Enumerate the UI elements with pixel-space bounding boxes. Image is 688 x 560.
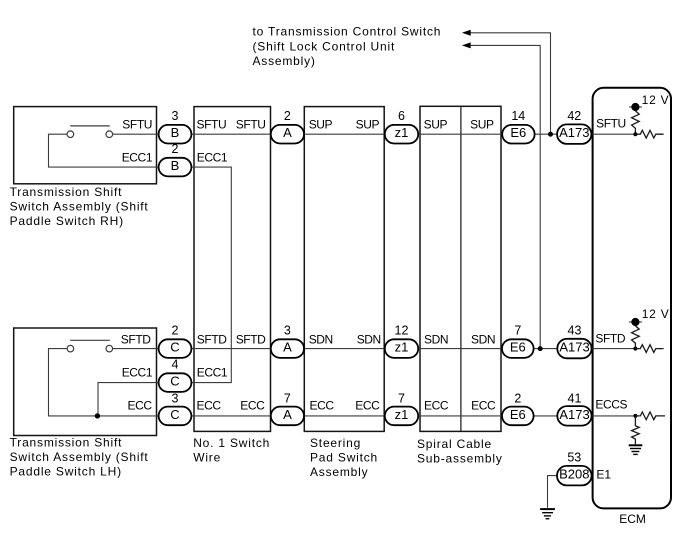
box: Steering Pad Switch Assembly xyxy=(304,107,384,432)
svg-text:A173: A173 xyxy=(559,407,589,422)
svg-text:Pad Switch: Pad Switch xyxy=(310,451,378,465)
node: SFTU branch junction xyxy=(548,132,553,137)
svg-text:12 V: 12 V xyxy=(642,93,670,107)
svg-text:2: 2 xyxy=(172,142,179,156)
wire SFTU: connector A173-42 into ECM xyxy=(591,133,635,135)
wire ECC1 RH: switch common to connector B2 xyxy=(49,134,159,167)
divider: spiral cable internal partition xyxy=(460,106,462,431)
wire ECC1: connector B2 into No.1 switch wire down to LH ECC1 row xyxy=(191,167,231,383)
node: SFTD internal junction xyxy=(633,347,637,351)
svg-text:Paddle Switch LH): Paddle Switch LH) xyxy=(10,465,122,479)
connector z1 pin 6 (SUP) xyxy=(385,125,418,144)
svg-text:ECC1: ECC1 xyxy=(122,151,153,165)
connector B208 pin 53 (E1) xyxy=(557,466,592,486)
wire SFTU: connector B3 through No.1 switch wire to connector A2 xyxy=(191,133,270,135)
svg-text:43: 43 xyxy=(568,324,582,338)
ground (ECCS internal) xyxy=(629,445,643,454)
svg-text:Transmission Shift: Transmission Shift xyxy=(10,436,123,450)
box: ECM xyxy=(593,88,671,509)
svg-text:SDN: SDN xyxy=(471,332,495,346)
svg-text:12 V: 12 V xyxy=(642,307,670,321)
svg-text:E6: E6 xyxy=(510,407,526,422)
svg-text:B: B xyxy=(171,125,180,140)
svg-text:SFTU: SFTU xyxy=(197,118,227,132)
svg-text:Paddle Switch RH): Paddle Switch RH) xyxy=(10,214,124,228)
svg-text:C: C xyxy=(170,340,179,355)
box: Spiral Cable Sub-assembly xyxy=(420,106,501,431)
connector C pin 2 (SFTD) xyxy=(159,339,192,358)
label: Transmission Shift Switch Assembly (Shift Paddle Switch RH) xyxy=(10,185,149,228)
power supply 12 V (SFTD pull-up) xyxy=(629,318,642,326)
svg-text:Switch Assembly (Shift: Switch Assembly (Shift xyxy=(10,450,149,464)
svg-text:41: 41 xyxy=(568,391,582,405)
wire ECC: switch LH common down to ECC row to connector C3 xyxy=(49,349,159,416)
connector A173 pin 43 (SFTD) xyxy=(557,339,591,359)
svg-text:SFTD: SFTD xyxy=(197,332,227,346)
box: Transmission Shift Switch Assembly (Shift Paddle Switch RH) xyxy=(14,107,157,184)
svg-text:14: 14 xyxy=(511,109,525,123)
node: SFTU internal junction xyxy=(633,132,637,136)
svg-text:Switch Assembly (Shift: Switch Assembly (Shift xyxy=(10,200,149,214)
wire ECC: connector z1-7 through spiral cable to connector E6-2 xyxy=(418,415,502,417)
svg-text:to Transmission Control Switch: to Transmission Control Switch xyxy=(253,25,442,39)
svg-text:E1: E1 xyxy=(596,467,611,481)
label: Spiral Cable Sub-assembly xyxy=(417,437,503,466)
svg-text:Spiral Cable: Spiral Cable xyxy=(417,437,492,451)
svg-text:ECC: ECC xyxy=(310,398,335,412)
label: Transmission Shift Switch Assembly (Shift Paddle Switch LH) xyxy=(10,436,149,479)
connector z1 pin 7 (ECC) xyxy=(385,407,418,426)
wire SFTU: switch RH to connector B3 xyxy=(113,133,159,135)
node: SFTD branch junction xyxy=(538,346,543,351)
svg-text:A173: A173 xyxy=(559,340,589,355)
connector E6 pin 14 (SUP) xyxy=(502,125,534,144)
svg-text:Steering: Steering xyxy=(310,436,361,450)
connector A173 pin 42 (SFTU) xyxy=(557,124,591,143)
svg-text:Sub-assembly: Sub-assembly xyxy=(417,452,503,466)
wire SFTD: switch LH to connector C2 xyxy=(113,348,159,350)
svg-text:C: C xyxy=(170,374,179,389)
wire SFTD: connector E6-7 to connector A173-43 xyxy=(534,348,558,350)
svg-text:7: 7 xyxy=(398,391,405,405)
svg-text:E6: E6 xyxy=(510,125,526,140)
wire SFTD: connector C2 through No.1 switch wire to connector A3 xyxy=(191,348,270,350)
svg-text:ECC: ECC xyxy=(197,398,222,412)
svg-text:SDN: SDN xyxy=(309,332,333,346)
svg-text:A: A xyxy=(283,407,292,422)
svg-text:A: A xyxy=(283,125,292,140)
svg-text:z1: z1 xyxy=(395,407,409,422)
svg-text:SFTU: SFTU xyxy=(596,117,626,131)
label: Steering Pad Switch Assembly xyxy=(310,436,378,479)
svg-text:SFTD: SFTD xyxy=(121,332,151,346)
wire ECC: connector E6-2 to connector A173-41 xyxy=(534,415,558,417)
wire: SFTD branch up to transmission control switch (arrow 2) xyxy=(470,45,540,348)
svg-text:ECC: ECC xyxy=(128,398,153,412)
node: ECCS internal junction xyxy=(633,414,637,418)
box: No. 1 Switch Wire xyxy=(194,107,271,432)
svg-text:SDN: SDN xyxy=(424,332,448,346)
connector z1 pin 12 (SDN) xyxy=(385,339,418,358)
svg-text:53: 53 xyxy=(567,451,581,465)
wire: SFTU branch up to transmission control switch (arrow 1) xyxy=(470,33,550,134)
svg-text:ECCS: ECCS xyxy=(595,398,627,412)
wire SUP: connector z1-6 through spiral cable to connector E6-14 xyxy=(418,133,502,135)
svg-text:C: C xyxy=(170,407,179,422)
connector E6 pin 7 (SDN) xyxy=(502,339,534,358)
svg-text:3: 3 xyxy=(172,391,179,405)
svg-text:4: 4 xyxy=(172,358,179,372)
wire SFTD: connector A173-43 into ECM xyxy=(592,348,635,350)
svg-text:ECM: ECM xyxy=(619,512,646,526)
svg-text:No. 1 Switch: No. 1 Switch xyxy=(193,436,270,450)
connector C pin 3 (ECC) xyxy=(159,407,192,426)
connector A pin 3 (SFTD) xyxy=(271,339,304,358)
resistor R5 (ECCS series) xyxy=(635,412,665,420)
svg-text:SUP: SUP xyxy=(309,117,333,131)
svg-text:SUP: SUP xyxy=(424,117,448,131)
wire ECCS: connector A173-41 into ECM xyxy=(592,415,635,417)
svg-text:A: A xyxy=(283,340,292,355)
wire SDN: connector z1-12 through spiral cable to connector E6-7 xyxy=(418,348,502,350)
svg-text:SUP: SUP xyxy=(356,117,380,131)
wire E1: connector B208-53 to ground xyxy=(548,476,558,508)
switch SW-LH (shift paddle LH) xyxy=(67,340,113,352)
svg-text:3: 3 xyxy=(284,324,291,338)
svg-text:z1: z1 xyxy=(395,340,409,355)
wire ECC1 LH: connector C4 left then down to ECC node xyxy=(98,383,159,416)
svg-text:42: 42 xyxy=(567,109,581,123)
svg-text:12: 12 xyxy=(395,324,409,338)
label: to Transmission Control Switch (Shift Lock Control Unit Assembly) xyxy=(253,25,442,68)
svg-text:ECC1: ECC1 xyxy=(197,151,228,165)
arrowhead: to transmission control switch line 2 xyxy=(462,42,471,48)
connector B pin 3 (SFTU) xyxy=(159,125,192,144)
svg-text:(Shift Lock Control Unit: (Shift Lock Control Unit xyxy=(253,39,396,53)
svg-text:SFTU: SFTU xyxy=(122,118,152,132)
svg-text:Assembly: Assembly xyxy=(310,465,368,479)
svg-text:E6: E6 xyxy=(510,340,526,355)
wire SDN: connector A3 through steering pad switch to connector z1-12 xyxy=(304,348,385,350)
connector A pin 2 (SFTU) xyxy=(271,125,304,144)
svg-text:Transmission Shift: Transmission Shift xyxy=(10,185,123,199)
resistor R3 (SFTD pull-up) xyxy=(632,326,640,349)
svg-text:6: 6 xyxy=(398,109,405,123)
svg-text:ECC1: ECC1 xyxy=(122,365,153,379)
label: No. 1 Switch Wire xyxy=(193,436,270,465)
connector C pin 4 (ECC1) xyxy=(159,373,192,392)
power supply 12 V (SFTU pull-up) xyxy=(629,103,642,111)
resistor R6 (ECCS to ground) xyxy=(632,416,640,444)
svg-text:2: 2 xyxy=(284,109,291,123)
svg-text:SFTD: SFTD xyxy=(595,332,625,346)
svg-text:ECC: ECC xyxy=(355,398,380,412)
connector E6 pin 2 (ECC) xyxy=(502,407,534,426)
connector B pin 2 (ECC1) xyxy=(159,158,192,177)
ground (E1 / B208) xyxy=(540,509,555,519)
svg-text:A173: A173 xyxy=(559,125,589,140)
svg-text:7: 7 xyxy=(514,324,521,338)
node: ECC junction in LH switch assembly xyxy=(95,413,100,418)
connector A173 pin 41 (ECCS) xyxy=(557,406,591,426)
svg-text:SUP: SUP xyxy=(470,117,494,131)
svg-text:Assembly): Assembly) xyxy=(253,54,316,68)
svg-text:ECC: ECC xyxy=(471,398,496,412)
svg-text:SDN: SDN xyxy=(357,332,381,346)
wire ECC: connector C3 through No.1 switch wire to connector A7 xyxy=(191,415,270,417)
svg-text:2: 2 xyxy=(514,391,521,405)
svg-text:3: 3 xyxy=(172,109,179,123)
wire SUP: connector A2 through steering pad switch to connector z1-6 xyxy=(304,133,385,135)
wire ECC: connector A7 through steering pad switch to connector z1-7 xyxy=(304,415,385,417)
resistor R1 (SFTU pull-up) xyxy=(632,111,640,134)
svg-text:ECC1: ECC1 xyxy=(197,365,228,379)
resistor R2 (SFTU series) xyxy=(635,130,663,138)
switch SW-RH (shift paddle RH) xyxy=(67,126,113,138)
svg-text:B: B xyxy=(171,158,180,173)
svg-text:SFTD: SFTD xyxy=(236,332,266,346)
svg-text:z1: z1 xyxy=(395,125,409,140)
wire SFTU: connector E6-14 to connector A173-42 xyxy=(535,133,558,135)
svg-text:2: 2 xyxy=(172,324,179,338)
connector A pin 7 (ECC) xyxy=(271,407,304,426)
svg-text:ECC: ECC xyxy=(424,398,449,412)
svg-text:ECC: ECC xyxy=(240,398,265,412)
svg-text:7: 7 xyxy=(284,391,291,405)
svg-text:SFTU: SFTU xyxy=(236,118,266,132)
svg-text:B208: B208 xyxy=(559,467,589,482)
resistor R4 (SFTD series) xyxy=(635,345,663,353)
box: Transmission Shift Switch Assembly (Shift Paddle Switch LH) xyxy=(14,328,157,436)
arrowhead: to transmission control switch line 1 xyxy=(462,30,471,36)
svg-text:Wire: Wire xyxy=(193,451,221,465)
